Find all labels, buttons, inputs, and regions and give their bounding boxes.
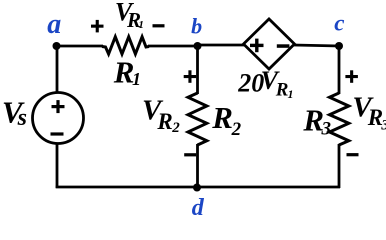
dependent source U1 (diamond)	[244, 19, 295, 69]
wire: node b to dependent source	[197, 44, 245, 47]
svg-text:R: R	[211, 100, 233, 135]
wire left vertical: node a down to source Vs	[56, 45, 59, 93]
svg-text:a: a	[47, 9, 61, 40]
wire top: node a to resistor R1	[56, 45, 103, 48]
wire: node b down to R2	[196, 45, 199, 94]
minus sign inside diamond	[277, 44, 290, 48]
wire: dependent source to node c	[293, 45, 340, 46]
plus sign above R3	[345, 70, 358, 83]
plus sign inside Vs	[52, 100, 65, 113]
wire: R2 down to node d	[196, 144, 199, 188]
resistor R1	[102, 37, 149, 54]
svg-text:s: s	[17, 105, 27, 131]
node b	[194, 42, 202, 50]
svg-text:b: b	[191, 13, 202, 38]
resistor R3	[330, 93, 349, 145]
svg-text:2: 2	[171, 120, 180, 136]
wire: Vs bottom down to bottom rail	[56, 143, 59, 188]
svg-text:d: d	[192, 195, 205, 219]
svg-text:1: 1	[138, 19, 144, 31]
svg-text:1: 1	[132, 69, 141, 89]
svg-text:R: R	[156, 109, 172, 134]
minus sign below R3	[347, 153, 359, 156]
wire: R3 down to bottom rail	[338, 144, 341, 188]
node c	[335, 42, 343, 50]
svg-text:3: 3	[380, 117, 386, 133]
svg-text:2: 2	[231, 119, 242, 140]
svg-text:1: 1	[288, 87, 294, 101]
svg-text:3: 3	[321, 118, 332, 139]
node a	[53, 42, 61, 50]
plus sign above R2	[184, 70, 197, 83]
svg-text:c: c	[334, 10, 344, 35]
wire bottom rail	[56, 186, 340, 189]
plus sign left of R1	[91, 20, 104, 33]
minus sign right of R1	[153, 24, 165, 27]
plus sign inside diamond	[250, 39, 264, 53]
resistor R2	[188, 93, 207, 145]
minus sign inside Vs	[51, 132, 64, 135]
wire: R1 to node b	[148, 45, 199, 48]
voltage source Vs	[33, 93, 84, 144]
minus sign below R2	[184, 153, 196, 156]
svg-text:R: R	[275, 79, 289, 100]
node d	[193, 184, 201, 192]
wire: node c down to R3	[338, 45, 341, 94]
